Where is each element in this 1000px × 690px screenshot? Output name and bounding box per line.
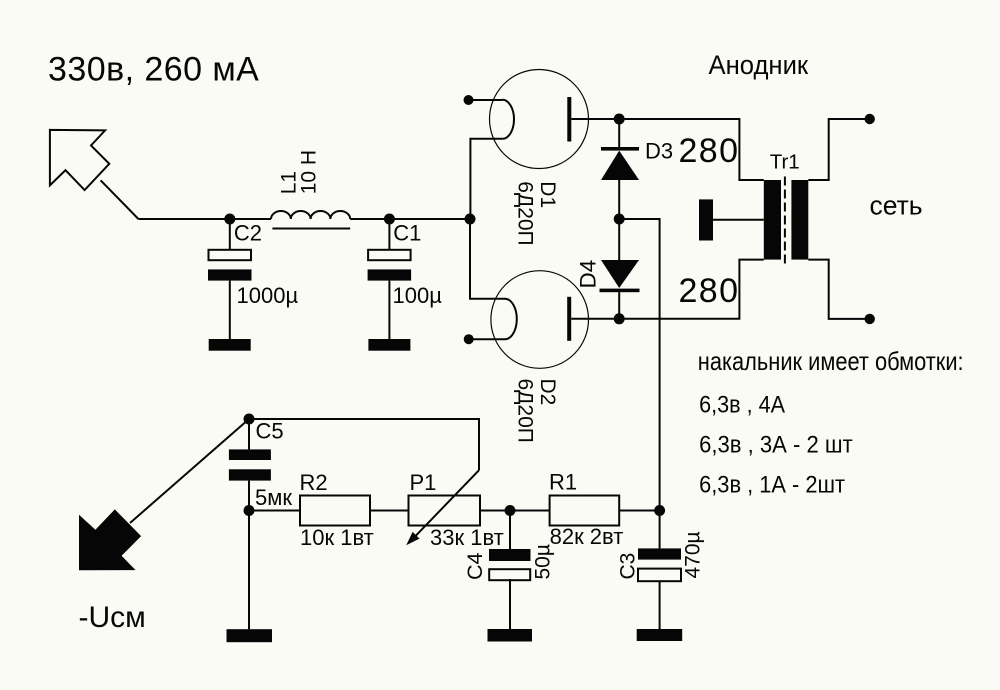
node heater junction — [465, 214, 476, 225]
resistor R1 body — [550, 496, 620, 526]
svg-text:Tr1: Tr1 — [770, 150, 800, 173]
node C5 top — [244, 414, 255, 425]
node C5 bottom / R2 tee — [244, 505, 255, 516]
svg-text:-Uсм: -Uсм — [79, 601, 146, 634]
tube D2 envelope — [491, 271, 589, 369]
capacitor C5 plate 1 — [229, 449, 271, 460]
tube D1 heater terminal dot — [464, 95, 474, 105]
diode D3 triangle — [601, 151, 639, 180]
capacitor C1 lower lead — [388, 281, 390, 339]
capacitor C3 bottom plate — [638, 569, 681, 582]
capacitor C2 top plate — [209, 250, 252, 260]
node rectifier top — [614, 114, 625, 125]
svg-text:6,3в , 1А - 2шт: 6,3в , 1А - 2шт — [699, 471, 845, 498]
svg-text:100µ: 100µ — [393, 283, 443, 308]
tube D1 envelope — [490, 70, 589, 169]
capacitor C2 lower lead — [229, 281, 231, 339]
svg-text:D2: D2 — [536, 379, 559, 406]
output arrow (B+ outlet, hollow) — [50, 130, 109, 190]
wire: P1 wiper diagonal — [411, 470, 479, 541]
svg-text:5мк: 5мк — [255, 485, 292, 510]
svg-text:накальник имеет обмотки:: накальник имеет обмотки: — [698, 347, 964, 376]
svg-text:82к 2вт: 82к 2вт — [550, 524, 624, 549]
svg-text:6Д20П: 6Д20П — [513, 379, 536, 443]
wire: R2 to P1 — [370, 510, 409, 512]
inductor L1 coil — [271, 211, 350, 219]
svg-text:C3: C3 — [617, 553, 640, 580]
tube D2 heater terminal dot — [464, 334, 474, 344]
wire: C5 node to bias arrow — [130, 419, 249, 523]
svg-text:280: 280 — [679, 132, 740, 170]
svg-text:6Д20П: 6Д20П — [514, 181, 537, 245]
inductor L1 core line — [272, 228, 350, 230]
bias output arrow (solid) — [79, 509, 141, 570]
node C1 — [384, 214, 395, 225]
wire: C5 node to wiper riser — [249, 419, 479, 470]
svg-text:сеть: сеть — [870, 191, 923, 221]
svg-text:R1: R1 — [549, 470, 577, 495]
capacitor C4 top plate — [489, 549, 531, 561]
wire: primary stub lead — [713, 219, 764, 221]
tube D2 heater top lead — [470, 219, 505, 299]
wire: C5 tee to R2 — [249, 510, 300, 512]
capacitor C4 bottom plate — [489, 569, 530, 580]
svg-text:P1: P1 — [410, 470, 437, 495]
capacitor C4 lower lead — [509, 579, 511, 629]
svg-text:6,3в , 3А - 2 шт: 6,3в , 3А - 2 шт — [699, 431, 853, 458]
capacitor C4 top lead — [509, 511, 511, 550]
diode D3 cathode bar — [601, 147, 639, 151]
capacitor C1 top plate — [368, 250, 411, 260]
wire: bottom node to transformer — [619, 260, 764, 319]
wire: D3 anode-to-top-node — [618, 119, 620, 148]
wire: main B+ bus right segment — [350, 218, 470, 220]
svg-text:10к 1вт: 10к 1вт — [300, 525, 374, 550]
node C3 tee — [654, 505, 665, 516]
tube D2 anode plate — [567, 297, 571, 341]
svg-text:6,3в , 4А: 6,3в , 4А — [699, 391, 786, 418]
tube D1 heater arc — [502, 100, 514, 139]
svg-text:Анодник: Анодник — [709, 49, 809, 80]
transformer Tr1 right winding bar — [791, 180, 808, 260]
wire: D3 to mid node — [618, 180, 620, 219]
svg-text:50µ: 50µ — [532, 544, 555, 579]
P1 wiper arrowhead — [406, 532, 419, 545]
svg-text:C4: C4 — [463, 552, 487, 580]
svg-text:C5: C5 — [256, 419, 284, 444]
svg-text:C2: C2 — [234, 220, 262, 245]
capacitor C5 plate 2 — [229, 469, 271, 480]
wire: P1 to R1 — [480, 510, 550, 512]
capacitor C5 lower lead — [248, 481, 250, 630]
tube D1 heater top lead — [469, 99, 503, 101]
node C2 — [224, 214, 235, 225]
tube D2 anode lead — [571, 318, 619, 320]
resistor R2 body — [300, 496, 370, 526]
svg-text:33к 1вт: 33к 1вт — [430, 525, 504, 550]
diode D4 cathode bar — [600, 289, 640, 293]
ground C3 — [637, 629, 683, 641]
svg-text:D3: D3 — [645, 138, 673, 163]
tube D1 heater bottom lead — [470, 139, 502, 219]
capacitor C5 top lead — [248, 419, 250, 449]
svg-text:470µ: 470µ — [682, 531, 705, 578]
transformer Tr1 primary stub bar — [699, 199, 713, 240]
svg-text:330в, 260 мА: 330в, 260 мА — [48, 51, 259, 89]
tube D1 anode lead — [571, 118, 619, 120]
capacitor C2 lead — [229, 219, 231, 250]
tube D2 heater arc — [505, 299, 517, 339]
tube D1 anode plate — [567, 97, 571, 142]
node rectifier mid — [614, 214, 625, 225]
wire: mains bottom — [808, 260, 869, 319]
wire: mid node to bias divider (right + down) — [619, 219, 659, 511]
ground C4 — [488, 629, 533, 642]
capacitor C3 top plate — [638, 548, 681, 559]
capacitor C2 bottom plate — [208, 269, 252, 280]
wire: mid node to D4 — [618, 219, 620, 260]
wire: arrow tail diagonal — [101, 180, 139, 219]
transformer Tr1 left winding bar — [764, 180, 781, 260]
diode D4 triangle — [601, 260, 639, 288]
node C4 tee — [505, 505, 516, 516]
wire: R1 to C3 node — [619, 510, 659, 512]
ground C1 — [368, 339, 410, 351]
tube D2 heater bottom lead — [469, 338, 505, 340]
svg-text:10 H: 10 H — [298, 150, 321, 194]
capacitor C3 lower lead — [659, 581, 661, 629]
transformer Tr1 core (dashed) — [784, 177, 786, 264]
ground C5 — [227, 629, 273, 642]
capacitor C3 top lead — [659, 511, 661, 549]
svg-text:1000µ: 1000µ — [237, 283, 299, 308]
svg-text:D1: D1 — [536, 181, 559, 208]
svg-text:C1: C1 — [393, 220, 421, 245]
wire: main B+ bus left segment — [138, 218, 271, 220]
mains bottom terminal dot — [865, 314, 875, 324]
mains top terminal dot — [865, 114, 875, 124]
potentiometer P1 body — [409, 496, 481, 526]
ground C2 — [209, 339, 251, 351]
capacitor C1 lead — [388, 219, 390, 250]
wire: top node to transformer — [619, 119, 764, 180]
svg-text:280: 280 — [679, 272, 740, 310]
capacitor C1 bottom plate — [368, 269, 412, 280]
wire: D4 to bottom node — [618, 292, 620, 319]
svg-text:R2: R2 — [300, 470, 328, 495]
node rectifier bottom — [614, 313, 625, 324]
svg-text:D4: D4 — [576, 260, 601, 289]
wire: mains top — [808, 119, 869, 180]
